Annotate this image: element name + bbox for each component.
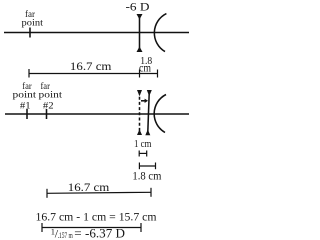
svg-text:16.7 cm - 1 cm = 15.7 cm: 16.7 cm - 1 cm = 15.7 cm (36, 210, 158, 224)
svg-text:point: point (39, 91, 63, 101)
svg-text:16.7 cm: 16.7 cm (68, 180, 110, 194)
svg-text:point: point (22, 18, 44, 28)
svg-text:1.8 cm: 1.8 cm (132, 171, 161, 183)
svg-text:#2: #2 (43, 102, 54, 112)
svg-text:#1: #1 (20, 102, 31, 112)
svg-text:-6 D: -6 D (126, 0, 150, 14)
svg-text:1 cm: 1 cm (134, 138, 152, 150)
svg-text:point: point (13, 91, 37, 101)
svg-text:cm: cm (139, 61, 152, 75)
svg-text:= -6.37 D: = -6.37 D (74, 226, 125, 240)
svg-text:.157 m: .157 m (58, 231, 74, 240)
svg-text:16.7 cm: 16.7 cm (70, 59, 112, 73)
